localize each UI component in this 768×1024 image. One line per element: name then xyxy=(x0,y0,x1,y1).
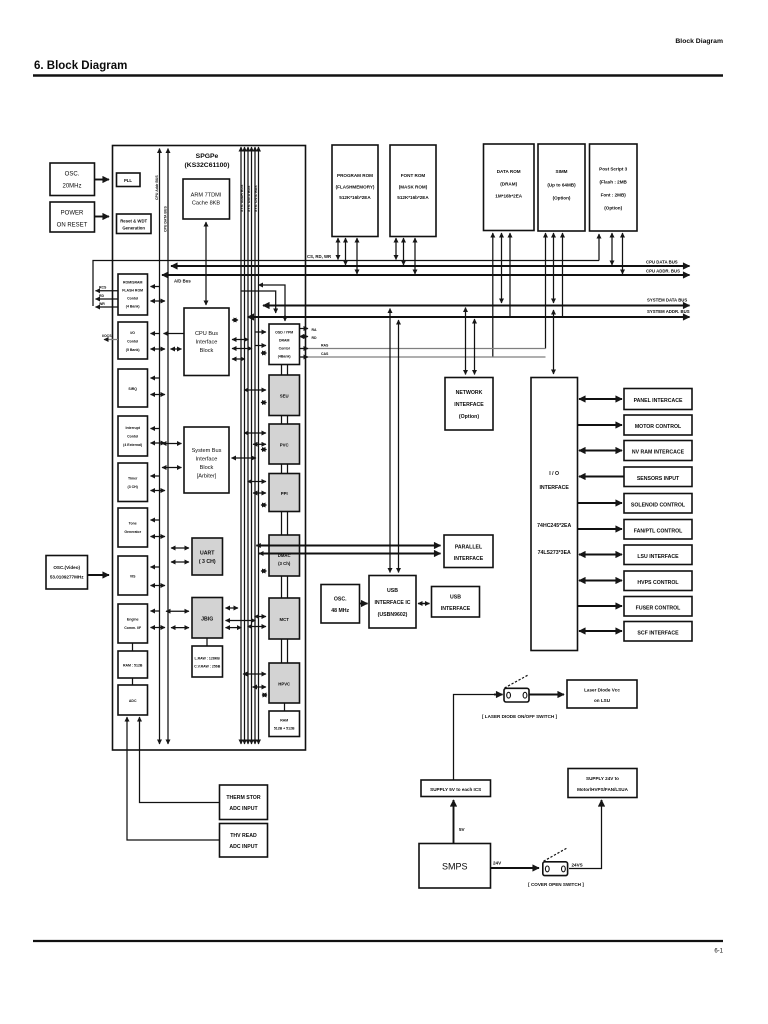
svg-text:[ LASER DIODE ON/OFF SWITCH ]: [ LASER DIODE ON/OFF SWITCH ] xyxy=(482,714,557,719)
svg-text:OSC.(Video): OSC.(Video) xyxy=(53,565,80,570)
svg-text:UART: UART xyxy=(200,551,215,557)
svg-text:ADC INPUT: ADC INPUT xyxy=(229,844,258,850)
svg-text:A/D Bus: A/D Bus xyxy=(174,279,191,284)
svg-text:RD: RD xyxy=(99,294,105,298)
svg-text:Motor/HVPS/FAN/LSUA: Motor/HVPS/FAN/LSUA xyxy=(577,787,628,792)
svg-text:Contol: Contol xyxy=(127,340,138,344)
svg-text:FAN/PTL CONTROL: FAN/PTL CONTROL xyxy=(634,529,683,535)
svg-text:1M*16b*2EA: 1M*16b*2EA xyxy=(495,194,522,199)
svg-text:(Up to 64MB): (Up to 64MB) xyxy=(547,183,576,188)
svg-text:Tone: Tone xyxy=(129,522,137,526)
svg-text:SMPS: SMPS xyxy=(442,862,468,872)
svg-text:SIMM: SIMM xyxy=(556,169,568,174)
svg-text:SPGPe: SPGPe xyxy=(196,153,219,160)
svg-text:I/O: I/O xyxy=(130,331,135,335)
svg-text:CPU DATA BUS: CPU DATA BUS xyxy=(646,260,678,265)
svg-text:74HC245*2EA: 74HC245*2EA xyxy=(537,523,571,529)
svg-text:SYS. CNTL BUS: SYS. CNTL BUS xyxy=(254,185,258,212)
svg-text:INTERFACE: INTERFACE xyxy=(454,402,484,408)
svg-text:SOLENOID CONTROL: SOLENOID CONTROL xyxy=(631,503,686,509)
svg-text:on LSU: on LSU xyxy=(594,698,611,703)
svg-text:POWER: POWER xyxy=(61,211,84,217)
svg-text:(USBN9602): (USBN9602) xyxy=(378,612,408,618)
svg-text:OSC.: OSC. xyxy=(65,172,80,178)
svg-text:System Bus: System Bus xyxy=(192,448,222,454)
svg-text:OSC.: OSC. xyxy=(334,597,347,603)
svg-text:INTERFACE: INTERFACE xyxy=(441,606,471,612)
svg-text:FONT ROM: FONT ROM xyxy=(401,173,426,178)
svg-text:CPU DATA BUS: CPU DATA BUS xyxy=(164,206,168,232)
svg-text:Comm. I/F: Comm. I/F xyxy=(124,626,142,630)
svg-text:Cache 8KB: Cache 8KB xyxy=(192,201,221,207)
svg-text:Interrupt: Interrupt xyxy=(126,426,141,430)
svg-text:Contol: Contol xyxy=(127,297,138,301)
svg-text:5V: 5V xyxy=(459,827,466,832)
svg-text:(Flash : 2MB: (Flash : 2MB xyxy=(600,180,628,185)
svg-text:CPU Bus: CPU Bus xyxy=(195,331,218,337)
svg-text:ADC INPUT: ADC INPUT xyxy=(229,806,258,812)
svg-text:Block Diagram: Block Diagram xyxy=(675,38,723,45)
svg-text:6. Block Diagram: 6. Block Diagram xyxy=(34,60,127,72)
svg-text:SUPPLY 5V to each ICS: SUPPLY 5V to each ICS xyxy=(430,787,481,792)
svg-text:SYS. ADDR BUS: SYS. ADDR BUS xyxy=(240,184,244,212)
svg-text:Block: Block xyxy=(200,348,214,354)
svg-text:Contol: Contol xyxy=(127,435,138,439)
svg-text:CPU Addr BUS: CPU Addr BUS xyxy=(155,175,159,200)
svg-text:SYSTEM ADDR. BUS: SYSTEM ADDR. BUS xyxy=(647,309,690,314)
svg-text:L.RAW : 128KB: L.RAW : 128KB xyxy=(195,657,221,661)
svg-text:Generation: Generation xyxy=(122,226,145,231)
svg-text:512K*16b*2EA: 512K*16b*2EA xyxy=(339,195,371,200)
svg-text:24V: 24V xyxy=(493,861,502,866)
svg-text:FLASH ROM: FLASH ROM xyxy=(122,289,143,293)
svg-text:C.V.RAW : 256B: C.V.RAW : 256B xyxy=(194,665,221,669)
svg-text:Laser Diode Vcc: Laser Diode Vcc xyxy=(584,688,620,693)
svg-text:USB: USB xyxy=(450,595,461,601)
svg-text:Post Script 3: Post Script 3 xyxy=(599,167,628,172)
svg-text:INTERFACE: INTERFACE xyxy=(454,556,484,562)
svg-text:RD: RD xyxy=(312,336,318,340)
svg-text:SIRQ: SIRQ xyxy=(128,387,137,391)
svg-text:DATA ROM: DATA ROM xyxy=(497,169,521,174)
svg-text:ADC: ADC xyxy=(129,699,137,703)
svg-text:INTERFACE: INTERFACE xyxy=(539,485,569,491)
svg-text:LSU INTERFACE: LSU INTERFACE xyxy=(637,554,679,560)
svg-text:74LS273*3EA: 74LS273*3EA xyxy=(538,550,571,556)
svg-text:THERM STOR: THERM STOR xyxy=(226,795,260,801)
svg-text:(Option): (Option) xyxy=(604,206,622,211)
svg-text:I/OCS: I/OCS xyxy=(102,334,112,338)
svg-text:Interface: Interface xyxy=(196,340,218,346)
svg-text:SENSORS INPUT: SENSORS INPUT xyxy=(637,476,680,482)
svg-text:ARM 7TDMI: ARM 7TDMI xyxy=(191,193,222,199)
svg-text:HVPS CONTROL: HVPS CONTROL xyxy=(637,580,679,586)
svg-text:SYSTEM DATA BUS: SYSTEM DATA BUS xyxy=(647,298,687,303)
svg-text:ON RESET: ON RESET xyxy=(57,223,88,229)
svg-text:Font : 2MB): Font : 2MB) xyxy=(601,193,627,198)
svg-text:(5 Bank): (5 Bank) xyxy=(126,348,140,352)
svg-text:PLL: PLL xyxy=(124,178,132,183)
svg-text:Generator: Generator xyxy=(124,530,141,534)
svg-text:(KS32C61100): (KS32C61100) xyxy=(185,162,230,169)
svg-text:(MASK ROM): (MASK ROM) xyxy=(399,185,428,190)
svg-text:VIS: VIS xyxy=(130,575,136,579)
svg-text:[Arbiter]: [Arbiter] xyxy=(197,474,217,480)
svg-text:PVC: PVC xyxy=(280,443,289,448)
svg-text:PPI: PPI xyxy=(281,491,288,496)
svg-text:48 MHz: 48 MHz xyxy=(331,608,349,614)
svg-text:I / O: I / O xyxy=(549,471,559,477)
svg-text:THV READ: THV READ xyxy=(230,833,257,839)
svg-text:RAM : 512B: RAM : 512B xyxy=(123,664,143,668)
svg-text:Timer: Timer xyxy=(128,477,138,481)
svg-text:6-1: 6-1 xyxy=(714,949,723,955)
svg-text:(Option): (Option) xyxy=(553,196,571,201)
svg-text:20MHz: 20MHz xyxy=(62,184,81,190)
svg-text:INTERFACE IC: INTERFACE IC xyxy=(374,600,410,606)
svg-text:(4 External): (4 External) xyxy=(123,443,142,447)
svg-text:OSD / YPM: OSD / YPM xyxy=(275,331,293,335)
svg-text:[ COVER OPEN SWITCH ]: [ COVER OPEN SWITCH ] xyxy=(528,882,584,887)
svg-text:SUPPLY 24V to: SUPPLY 24V to xyxy=(586,776,619,781)
svg-text:DRAM: DRAM xyxy=(279,339,290,343)
svg-text:MOTOR CONTROL: MOTOR CONTROL xyxy=(635,424,682,430)
svg-text:CS, RD, WR: CS, RD, WR xyxy=(307,254,332,259)
svg-text:JBIG: JBIG xyxy=(201,617,213,623)
svg-text:ROM/SRAM: ROM/SRAM xyxy=(123,281,143,285)
svg-text:Reset & WDT: Reset & WDT xyxy=(120,219,147,224)
svg-text:53.0109277MHz: 53.0109277MHz xyxy=(50,575,84,580)
svg-text:(3 Ch): (3 Ch) xyxy=(278,561,291,566)
svg-text:512K*16b*2EA: 512K*16b*2EA xyxy=(397,195,429,200)
svg-text:NV RAM INTERCACE: NV RAM INTERCACE xyxy=(632,450,685,456)
svg-text:(4 Bank): (4 Bank) xyxy=(126,305,140,309)
svg-text:WR: WR xyxy=(99,302,105,306)
svg-text:(FLASHMEMORY): (FLASHMEMORY) xyxy=(336,185,375,190)
svg-text:PANEL INTERCACE: PANEL INTERCACE xyxy=(634,398,683,404)
svg-text:Block: Block xyxy=(200,465,214,471)
svg-text:MCT: MCT xyxy=(280,617,290,622)
svg-text:PARALLEL: PARALLEL xyxy=(455,545,483,551)
svg-text:(4Bank): (4Bank) xyxy=(278,355,291,359)
svg-text:(DRAM): (DRAM) xyxy=(500,182,517,187)
svg-text:Interface: Interface xyxy=(196,457,218,463)
svg-text:SYS. DATA BUS: SYS. DATA BUS xyxy=(247,185,251,212)
svg-text:SCF INTERFACE: SCF INTERFACE xyxy=(637,631,679,637)
svg-text:CAS: CAS xyxy=(321,352,329,356)
svg-text:512B + 512B: 512B + 512B xyxy=(274,727,295,731)
svg-text:SEU: SEU xyxy=(280,394,289,399)
svg-text:( 3 CH): ( 3 CH) xyxy=(199,559,216,565)
svg-text:PROGRAM ROM: PROGRAM ROM xyxy=(337,173,373,178)
svg-text:24VS: 24VS xyxy=(572,863,583,868)
svg-text:Engine: Engine xyxy=(127,618,139,622)
svg-text:RA: RA xyxy=(312,328,318,332)
svg-text:NETWORK: NETWORK xyxy=(456,390,483,396)
svg-text:RAM: RAM xyxy=(280,719,288,723)
svg-text:RAS: RAS xyxy=(321,344,329,348)
svg-text:Contol: Contol xyxy=(279,347,290,351)
svg-text:FUSER CONTROL: FUSER CONTROL xyxy=(636,606,682,612)
svg-text:(Option): (Option) xyxy=(459,414,479,420)
svg-text:HPVC: HPVC xyxy=(278,682,290,687)
svg-text:(3 CH): (3 CH) xyxy=(128,485,138,489)
svg-text:CPU ADDR. BUS: CPU ADDR. BUS xyxy=(646,269,680,274)
svg-text:USB: USB xyxy=(387,588,398,594)
svg-text:RCS: RCS xyxy=(99,286,107,290)
